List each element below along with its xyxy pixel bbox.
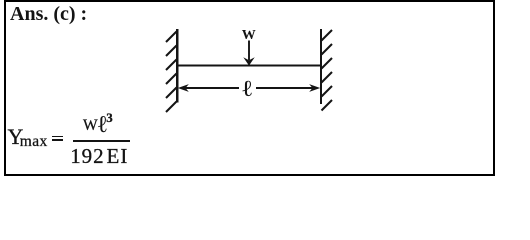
dimension line right segment bbox=[256, 87, 315, 89]
beam bbox=[177, 64, 321, 66]
equals sign bar bottom bbox=[52, 139, 63, 141]
numerator script ell bbox=[97, 112, 109, 139]
fixed support wall right bbox=[320, 29, 322, 104]
load label W bbox=[242, 28, 256, 44]
dimension arrowhead left bbox=[178, 84, 189, 92]
exponent 3 bbox=[106, 110, 113, 126]
Y bbox=[8, 124, 24, 150]
answer box border bbox=[4, 0, 495, 176]
numerator W bbox=[83, 117, 98, 135]
span label l (script ell) bbox=[241, 76, 253, 102]
fixed support wall left bbox=[176, 29, 178, 103]
equals sign bar top bbox=[52, 136, 63, 138]
load arrowhead bbox=[243, 57, 254, 65]
dimension arrowhead right bbox=[309, 84, 320, 92]
denominator 192 EI bbox=[70, 144, 128, 169]
label Ans. (c) : bbox=[10, 3, 87, 26]
wall hatching right bbox=[322, 30, 333, 111]
wall hatching left bbox=[166, 32, 177, 113]
dimension line left segment bbox=[183, 87, 239, 89]
fraction bar bbox=[73, 140, 130, 142]
max subscript bbox=[20, 133, 48, 151]
load arrow W shaft bbox=[248, 41, 250, 61]
